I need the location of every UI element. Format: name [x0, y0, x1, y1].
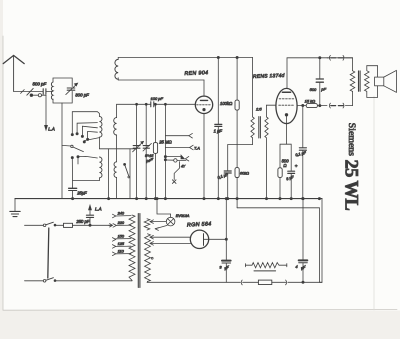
svg-text:4Υ: 4Υ	[181, 165, 186, 169]
svg-text:pF: pF	[146, 159, 152, 163]
variable capacitor 300pF	[66, 83, 89, 97]
svg-text:5÷15: 5÷15	[145, 154, 154, 158]
trimmer capacitor 5-15pF	[143, 103, 154, 199]
wire tank to ground bus	[61, 103, 63, 199]
svg-text:240: 240	[117, 211, 125, 216]
svg-text:300 pF: 300 pF	[75, 92, 89, 97]
svg-text:100kΩ: 100kΩ	[220, 101, 233, 106]
page border bottom edge	[0, 310, 400, 339]
svg-text:L.A: L.A	[95, 206, 102, 211]
svg-text:150: 150	[118, 233, 125, 238]
svg-text:110: 110	[118, 249, 125, 254]
main wire grid line REN904	[117, 103, 196, 105]
interstage transformer 1:5	[251, 58, 268, 200]
capacitor 0.1uF anode bypass	[295, 104, 307, 199]
contact pair with lamp and diode	[164, 155, 189, 162]
lamp taps to winding	[150, 220, 167, 231]
svg-text:EV013A: EV013A	[176, 214, 190, 218]
ground bus	[15, 198, 322, 200]
wire switch branch to bus	[129, 149, 131, 199]
antenna coil L2 feed wire	[71, 112, 99, 136]
transformer HV winding	[145, 234, 154, 282]
capacitor 500pF antenna	[33, 82, 54, 95]
output transformer	[350, 58, 369, 106]
oscillator coil L4 upper	[114, 104, 117, 162]
brand text Siemens	[346, 123, 357, 156]
coil L2 taps to contacts	[76, 123, 99, 143]
rectifier heater wires	[150, 235, 192, 245]
tuning capacitor C1	[133, 103, 144, 199]
jack terminal TA	[165, 145, 200, 150]
transformer filament winding	[144, 219, 150, 230]
svg-text:60kΩ: 60kΩ	[240, 171, 249, 175]
resistor 60kOhm	[235, 168, 249, 208]
pickup switch column	[164, 103, 166, 199]
band switch contact and lever (left)	[62, 145, 83, 151]
resistor 15kOhm output	[297, 98, 327, 107]
ground symbol	[10, 199, 20, 217]
tube REN904	[184, 70, 212, 113]
wire interstage to RENS grid	[267, 104, 277, 106]
wire antenna to input	[14, 90, 43, 92]
svg-text:100 pF: 100 pF	[151, 96, 164, 101]
svg-text:+: +	[295, 164, 298, 169]
rectifier output wire	[209, 238, 228, 240]
resistor 25MOhm grid leak	[153, 103, 172, 199]
coil L3 contacts	[71, 156, 97, 189]
bottom return wire	[147, 281, 322, 283]
dial lamp circuit	[156, 198, 171, 218]
svg-text:15 kΩ: 15 kΩ	[305, 98, 316, 103]
antenna switch	[21, 88, 46, 96]
capacitor 25uF	[69, 188, 88, 199]
svg-text:pF: pF	[320, 86, 326, 91]
tube RENS1374d	[253, 73, 297, 124]
node LA link upper arrow	[45, 95, 55, 131]
svg-text:25μF: 25μF	[76, 191, 87, 196]
loudspeaker	[367, 66, 397, 98]
svg-text:500 pF: 500 pF	[33, 82, 47, 87]
filter capacitor 3uF	[219, 198, 230, 283]
svg-text:500: 500	[310, 87, 317, 92]
switch at coil L5	[124, 163, 130, 178]
speaker field coil	[245, 263, 286, 271]
voltage taps	[112, 211, 131, 256]
dial lamp	[166, 214, 190, 226]
oscillator coil L5 lower	[114, 162, 117, 199]
svg-text:REN 904: REN 904	[184, 70, 208, 77]
wire to X terminal	[172, 162, 185, 184]
page border right edge	[373, 96, 375, 310]
svg-text:RGN 564: RGN 564	[187, 221, 212, 228]
B- return wire	[237, 208, 319, 282]
svg-text:Siemens: Siemens	[346, 123, 357, 156]
svg-text:125: 125	[118, 241, 125, 246]
svg-text:1 μF: 1 μF	[214, 129, 223, 134]
antenna coil L2 (tapped)	[99, 116, 102, 148]
svg-text:1:5: 1:5	[256, 107, 262, 112]
node LA lower arrow	[89, 205, 102, 211]
tank circuit box with coil L1	[51, 78, 72, 103]
wire anode RENS to rail	[287, 58, 353, 89]
cathode RC 500 Ohm + 8uF	[278, 123, 298, 199]
capacitor 500pF tone	[310, 57, 327, 107]
resistor 100kOhm	[220, 56, 239, 167]
svg-text:220: 220	[117, 220, 125, 225]
tube RGN564 rectifier	[187, 221, 212, 248]
svg-text:T.A: T.A	[194, 146, 200, 151]
mains double pole switch	[43, 222, 56, 282]
capacitor 100pF	[151, 96, 164, 107]
RF choke rails	[118, 58, 252, 81]
antenna coil L3 (lower tapped)	[73, 157, 102, 181]
wire cathode REN904 to bus	[203, 114, 205, 200]
svg-text:25 WL: 25 WL	[341, 160, 361, 211]
mains input wires	[25, 225, 44, 280]
bus right drop	[318, 198, 322, 283]
capacitor 250pF LA	[75, 210, 93, 226]
wire coil L2 bottom to tuning branch	[99, 148, 136, 150]
svg-text:RENS 1374d: RENS 1374d	[253, 73, 285, 80]
svg-text:L.A: L.A	[48, 127, 55, 132]
fuse link with connectors	[241, 280, 286, 285]
RF choke coil	[115, 59, 118, 79]
wire anode REN904	[203, 80, 205, 96]
antenna	[3, 55, 24, 91]
capacitor 1uF decoupling	[214, 56, 223, 199]
connector pair lower rail	[329, 103, 352, 108]
page border left edge	[0, 0, 3, 339]
mains transformer primary	[129, 215, 135, 281]
fuse box mains	[56, 223, 112, 227]
connector pair top rail	[287, 55, 353, 60]
jack terminal upper	[165, 133, 192, 138]
wire branch to bus	[108, 149, 110, 200]
mains voltage selector arrow	[109, 224, 113, 227]
filter capacitor 4uF	[295, 198, 307, 283]
model text 25 WL	[341, 160, 361, 211]
transformer core	[138, 214, 140, 288]
svg-text:250 pF: 250 pF	[75, 219, 89, 224]
mains bottom wire	[56, 280, 132, 282]
capacitor 0.1uF grid	[217, 145, 253, 200]
